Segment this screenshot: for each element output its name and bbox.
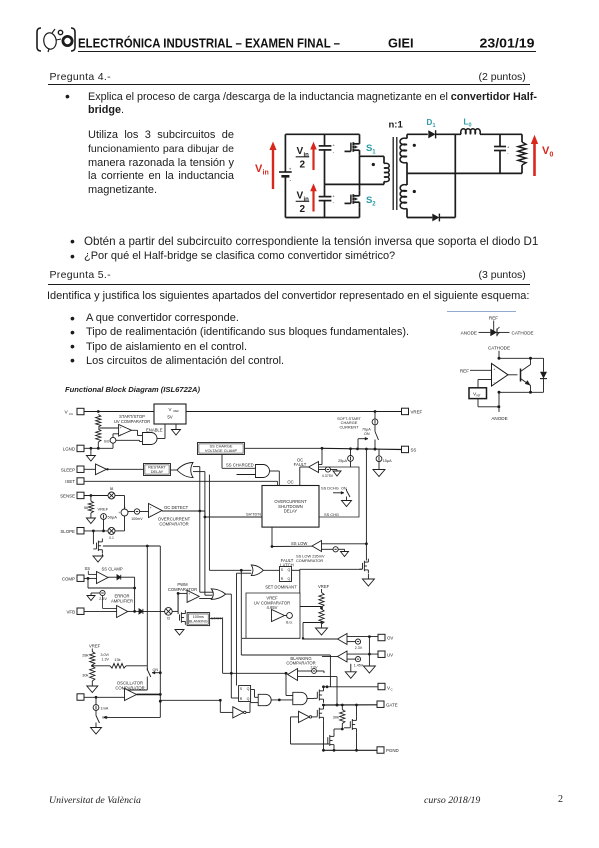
pin GATE <box>377 701 398 707</box>
label SET DOMINANT <box>265 585 297 590</box>
source BG uv <box>285 613 293 625</box>
svg-text:UV COMPARATOR: UV COMPARATOR <box>114 419 150 424</box>
ground vref divider <box>316 628 328 635</box>
ground ovuv <box>363 666 375 673</box>
wire osc comp out <box>137 694 222 701</box>
pin ISET <box>65 478 84 484</box>
wire fault latch inputs <box>209 475 251 686</box>
ground sense divider <box>86 518 95 524</box>
label ERROR AMPLIFIER <box>111 594 133 604</box>
label 3.0V 1.3V <box>101 653 110 661</box>
ground slope mosfet <box>93 554 103 563</box>
svg-text:3.0V/: 3.0V/ <box>101 653 109 657</box>
label Vin/2 bottom <box>296 191 310 216</box>
comparator SS LOW <box>272 541 368 552</box>
svg-text:SS CLAMP: SS CLAMP <box>102 566 123 571</box>
summer sigma <box>115 496 128 531</box>
wire REF input <box>470 369 492 371</box>
capacitor C2 bottom <box>319 184 336 217</box>
svg-text:15µA: 15µA <box>383 459 392 463</box>
svg-text:in: in <box>263 170 269 177</box>
wire blanking comp rail <box>223 672 288 675</box>
source 15uA <box>376 449 392 470</box>
block OVERCURRENT SHUTDOWN DELAY <box>262 486 319 528</box>
svg-text:ref: ref <box>477 394 481 398</box>
svg-text:ON: ON <box>364 432 370 436</box>
wire Vc rail <box>322 685 378 688</box>
svg-text:Q: Q <box>288 568 291 572</box>
op-amp error amp tl431 <box>492 364 509 387</box>
comparator OV <box>338 634 348 645</box>
label SS LOW 235mV COMPARATOR <box>296 554 325 564</box>
svg-text:ENABLE: ENABLE <box>146 427 163 432</box>
svg-text:R: R <box>281 577 284 581</box>
svg-text:COMPARATOR: COMPARATOR <box>159 521 188 526</box>
header title <box>78 35 535 50</box>
svg-text:+: + <box>332 143 335 148</box>
multiplier sense <box>108 487 115 499</box>
svg-text:PGND: PGND <box>386 748 399 753</box>
wire OV pin <box>347 635 378 638</box>
source Vref box <box>469 388 487 399</box>
pin VCC <box>65 408 85 416</box>
wire switch midpoint <box>359 155 361 191</box>
wire OC detect out <box>162 510 262 519</box>
label OVERCURRENT COMPARATOR <box>158 517 191 527</box>
wire COMP node <box>84 577 136 589</box>
svg-text:SS LOW: SS LOW <box>291 541 307 546</box>
box vref uv region <box>242 593 300 638</box>
label L0 <box>464 118 472 129</box>
wire switch control arrow <box>358 437 368 449</box>
arrow V0 red <box>531 135 538 176</box>
ground 235mV <box>341 552 349 557</box>
wire secondary mid rail <box>407 172 522 174</box>
svg-text:SLEEP: SLEEP <box>61 467 75 472</box>
label BLANKING COMPARATOR <box>286 656 318 670</box>
source 2.3V ov <box>347 639 369 650</box>
comparator OC fault <box>309 448 326 472</box>
svg-text:SS: SS <box>411 447 417 452</box>
svg-text:ISET: ISET <box>65 479 75 484</box>
svg-text:+: + <box>124 505 126 509</box>
transistor gate pull-up <box>314 687 324 703</box>
svg-text:+: + <box>188 592 190 596</box>
svg-text:VREF: VREF <box>411 409 423 414</box>
wire bottom rail tl431 <box>498 391 544 394</box>
resistor load <box>518 134 526 173</box>
source 100mV offset <box>128 509 149 521</box>
ground below VREF box <box>172 424 181 435</box>
svg-text:DELAY: DELAY <box>284 509 298 514</box>
resistor 5k <box>84 496 94 519</box>
svg-text:SH'TD'N: SH'TD'N <box>246 512 261 517</box>
logo degree mark <box>58 30 62 34</box>
resistor VCC divider <box>96 415 119 449</box>
gate AND gate drive 2 <box>279 673 307 704</box>
capacitor output <box>494 134 510 173</box>
pin SENSE <box>60 492 84 498</box>
label SS LOW <box>291 541 307 546</box>
wire UV output <box>322 656 338 658</box>
svg-text:+: + <box>150 506 152 510</box>
logo bracket right <box>71 28 75 51</box>
node Vin red arrow <box>269 142 276 190</box>
logo bold o <box>63 36 72 45</box>
svg-text:OV: OV <box>387 636 393 641</box>
multiplier slope 0.1 <box>108 527 115 539</box>
label Vin <box>255 163 269 177</box>
svg-text:in: in <box>304 153 310 159</box>
svg-text:COMPARATOR: COMPARATOR <box>296 558 323 563</box>
svg-text:V: V <box>297 146 304 157</box>
svg-text:SENSE: SENSE <box>60 493 75 498</box>
label SS CLAMP <box>102 566 123 571</box>
svg-text:VREF: VREF <box>318 584 330 589</box>
transistor ss pulldown <box>300 559 369 574</box>
svg-text:+: + <box>289 166 292 171</box>
wire latch to mosfet gate <box>300 592 322 594</box>
pin COMP <box>62 575 84 581</box>
wire and2 to upper mosfet <box>307 698 314 700</box>
wire LGND rail <box>84 447 113 450</box>
diode protection tl431 <box>540 358 547 392</box>
label SS CHARGED <box>226 463 254 468</box>
source 1mA <box>93 697 109 714</box>
svg-text:OC: OC <box>287 480 293 485</box>
transistor Q1 tl431 <box>508 358 531 392</box>
label PWM COMPARATOR <box>168 582 197 592</box>
gate AND enable <box>116 424 165 445</box>
svg-text:-: - <box>333 149 335 154</box>
svg-text:28k: 28k <box>82 653 88 658</box>
bus vertical 160 <box>159 546 162 718</box>
label VREF UV COMPARATOR 4.65V <box>254 596 290 611</box>
block RESTART DELAY <box>144 464 171 476</box>
svg-text:COMPARATOR: COMPARATOR <box>168 587 197 592</box>
transistor S2 <box>345 191 360 218</box>
gate AND ss charged <box>237 465 280 574</box>
wire vref to op-amp minus <box>478 380 492 388</box>
svg-text:5V: 5V <box>167 415 172 420</box>
label SOFT-START CHARGE CURRENT <box>337 416 361 430</box>
svg-text:ON: ON <box>153 668 159 672</box>
pin SLEEP <box>61 466 84 472</box>
pin VREF <box>402 408 423 414</box>
switch soft start <box>374 430 379 450</box>
svg-text:C: C <box>391 688 394 692</box>
label S1 <box>366 143 376 156</box>
comparator overcurrent <box>149 504 163 518</box>
label ANODE <box>461 330 477 335</box>
svg-text:V: V <box>297 191 304 202</box>
svg-text:5k: 5k <box>84 505 88 510</box>
label OC DETECT <box>164 505 189 510</box>
label n:1 <box>389 120 404 131</box>
svg-text:0: 0 <box>550 152 554 159</box>
wire mosfet drain to bus <box>102 539 160 546</box>
wire osd to ss low <box>271 527 274 548</box>
wire SLEEP <box>84 468 96 470</box>
svg-text:FAULT: FAULT <box>294 462 307 467</box>
label V0 <box>542 145 554 159</box>
wire capacitor midpoint <box>325 183 360 185</box>
ground blanking mosfet <box>175 625 185 635</box>
latch pwm SR <box>239 686 251 702</box>
svg-text:50µA: 50µA <box>108 515 118 520</box>
transformer secondary winding bottom <box>400 173 416 217</box>
svg-text:+: + <box>332 193 335 198</box>
wire OR restart input buses <box>193 467 209 596</box>
wire vref divider taps <box>300 607 322 639</box>
pin UV <box>378 651 393 657</box>
arrow Vin/2 bottom red <box>310 183 317 211</box>
switch osc hysteresis <box>125 668 161 692</box>
source 4.375V oc fault <box>322 467 337 478</box>
source 70uA soft start <box>372 412 378 431</box>
svg-text:BLANKING: BLANKING <box>189 620 208 624</box>
svg-text:ON: ON <box>341 487 347 491</box>
logo bracket left <box>37 28 41 51</box>
wire vref to anode <box>478 392 500 412</box>
label VREF 50uA <box>98 507 109 512</box>
label REF fig2 <box>460 368 469 373</box>
pin RTCT <box>77 694 84 700</box>
label D1 <box>427 118 436 129</box>
svg-text:1.3V: 1.3V <box>102 657 110 661</box>
label SS CHG <box>324 512 339 517</box>
transistor gate pull-down <box>317 705 323 721</box>
label CATHODE fig2 <box>488 346 510 351</box>
svg-text:Q: Q <box>288 577 291 581</box>
wire gate rail <box>322 703 377 707</box>
wire secondary bottom rail <box>407 217 432 219</box>
resistor 28k <box>82 649 95 668</box>
svg-text:2: 2 <box>300 160 306 171</box>
label SS DCHG ON <box>321 486 347 491</box>
source 2.5V <box>91 590 107 600</box>
diode SS clamp <box>108 575 136 613</box>
svg-text:1: 1 <box>433 123 436 129</box>
svg-text:-: - <box>333 200 335 205</box>
label OC <box>287 480 293 485</box>
node diode junction rail <box>454 134 456 217</box>
ground oc fault ref <box>333 471 341 476</box>
label FAULT LATCH <box>280 558 294 568</box>
wire buffer input <box>291 717 330 744</box>
ground rtct <box>91 728 102 735</box>
svg-text:ANODE: ANODE <box>491 416 507 421</box>
logo oval glyph <box>43 29 61 52</box>
wire SENSE <box>84 494 108 497</box>
svg-text:COMPARATOR: COMPARATOR <box>115 685 144 690</box>
svg-text:SS: SS <box>85 566 91 571</box>
svg-text:R: R <box>240 697 243 701</box>
resistor 13k <box>92 657 147 668</box>
transformer primary winding <box>360 156 390 184</box>
svg-text:REF: REF <box>174 409 180 413</box>
transformer secondary winding top <box>400 134 416 173</box>
svg-text:+: + <box>120 426 122 430</box>
label SHTDN <box>246 512 261 517</box>
transistor sink lower <box>328 729 343 750</box>
pin OV <box>378 634 393 640</box>
svg-text:t3: t3 <box>167 617 170 621</box>
ground 15uA <box>373 470 385 477</box>
gate OR pwm <box>199 589 226 600</box>
label ENABLE <box>146 427 163 432</box>
svg-text:OC DETECT: OC DETECT <box>164 505 189 510</box>
pin SLOPE <box>60 528 84 534</box>
diode D1 <box>428 130 461 138</box>
latch fault SR <box>263 567 291 582</box>
resistor vref right <box>318 584 330 628</box>
svg-text:START: START <box>211 616 224 621</box>
svg-text:1.45V: 1.45V <box>354 663 364 667</box>
wire UV pin <box>347 637 378 666</box>
comparator VREF UV <box>272 610 285 622</box>
svg-text:+: + <box>118 511 120 515</box>
svg-text:Q: Q <box>247 687 250 691</box>
wire oc fault out <box>300 467 309 486</box>
svg-text:n:1: n:1 <box>389 120 404 131</box>
svg-text:B.G.: B.G. <box>286 621 293 625</box>
ground 2.5V <box>87 596 95 601</box>
transistor sink right <box>342 705 356 750</box>
svg-text:REF: REF <box>489 316 498 321</box>
wire top rail primary <box>285 133 359 135</box>
svg-text:13k: 13k <box>114 657 120 662</box>
inverter osc delay <box>220 700 246 718</box>
wire OV output <box>302 637 338 639</box>
label REF top <box>489 316 498 321</box>
wire REF stem <box>493 321 495 333</box>
label ANODE bottom <box>491 416 507 421</box>
svg-text:CATHODE: CATHODE <box>512 330 534 335</box>
svg-text:25µA: 25µA <box>338 459 347 463</box>
box SS discharge region <box>319 467 359 517</box>
svg-text:COMP: COMP <box>62 576 75 581</box>
svg-text:BG: BG <box>104 439 109 443</box>
svg-text:REF: REF <box>460 368 469 373</box>
diode D2 bottom <box>432 214 455 222</box>
gate OR fault <box>251 565 263 576</box>
buffer low side <box>291 702 318 723</box>
wire cathode to op-amp top <box>498 358 500 368</box>
wire secondary top rail <box>407 133 428 135</box>
label START/STOP UV COMPARATOR <box>114 414 150 424</box>
svg-text:UV: UV <box>387 652 393 657</box>
block SS CHARGE VOLTAGE CLAMP <box>198 443 245 455</box>
comparator start/stop UV <box>119 425 132 437</box>
svg-text:2: 2 <box>300 204 306 215</box>
comparator UV <box>338 651 348 662</box>
svg-text:Q: Q <box>247 697 250 701</box>
label OSCILLATOR COMPARATOR <box>115 681 144 691</box>
svg-text:CC: CC <box>69 412 74 416</box>
ground ss discharge <box>342 467 352 507</box>
svg-text:ELECTRÓNICA INDUSTRIAL – EXAME: ELECTRÓNICA INDUSTRIAL – EXAMEN FINAL – <box>78 35 340 50</box>
wire ISET <box>84 481 278 485</box>
wire start to blanking comp <box>210 619 223 674</box>
capacitor C1 top <box>319 134 336 184</box>
wire SS rail <box>245 447 402 451</box>
source 1.45V uv <box>347 657 364 668</box>
svg-text:AMPLIFIER: AMPLIFIER <box>111 598 133 603</box>
wire top rail tl431 <box>498 357 544 360</box>
wire PGND rail <box>322 721 377 752</box>
source 25uA <box>338 449 353 467</box>
pin VFB <box>66 608 84 614</box>
wire clamp to and <box>222 455 256 469</box>
multiplier 1/3 <box>165 592 188 621</box>
svg-text:SS CHARGED: SS CHARGED <box>226 463 254 468</box>
svg-text:2.3V: 2.3V <box>355 646 363 650</box>
svg-text:CATHODE: CATHODE <box>488 346 510 351</box>
svg-text:VOLTAGE CLAMP: VOLTAGE CLAMP <box>205 448 238 453</box>
block 100ms BLANKING <box>187 613 210 626</box>
comparator blanking <box>288 669 339 707</box>
block VREF 5V regulator <box>154 404 186 424</box>
ground ss pulldown <box>362 574 374 586</box>
wire cathode stem <box>498 351 500 359</box>
transistor 100ns blanking <box>178 593 185 624</box>
svg-text:-: - <box>290 177 292 183</box>
svg-text:VREF: VREF <box>89 644 101 649</box>
source BG bandgap <box>104 434 118 449</box>
wire RTCT <box>84 696 125 699</box>
svg-text:SS DCHG: SS DCHG <box>321 486 339 491</box>
wire fault latch output <box>292 569 300 593</box>
wire rail 655 <box>241 655 330 687</box>
svg-text:1: 1 <box>372 150 376 156</box>
svg-text:SLOPE: SLOPE <box>60 529 75 534</box>
label VREF osc <box>89 644 101 649</box>
svg-text:100mV: 100mV <box>131 517 143 521</box>
arrow Vin/2 top red <box>310 142 317 170</box>
comparator oscillator <box>122 689 137 701</box>
svg-text:0.1: 0.1 <box>109 536 114 540</box>
gate OR restart <box>171 463 194 478</box>
ground mid right <box>345 664 356 679</box>
label START <box>211 616 224 621</box>
svg-text:0: 0 <box>469 123 472 129</box>
svg-text:DELAY: DELAY <box>151 469 164 474</box>
svg-text:30k: 30k <box>333 715 339 720</box>
source Vin battery <box>279 134 292 217</box>
label OC FAULT <box>294 457 307 467</box>
svg-text:ANODE: ANODE <box>461 330 477 335</box>
svg-text:+: + <box>507 144 510 149</box>
svg-text:VREF: VREF <box>98 507 109 512</box>
svg-text:LGND: LGND <box>63 446 75 451</box>
diode error amp out <box>128 609 165 614</box>
svg-text:SS CHG: SS CHG <box>324 512 339 517</box>
resistor 30k <box>82 666 95 686</box>
ground osc divider <box>87 686 98 693</box>
switch rtct discharge <box>96 714 160 728</box>
wire drain rail y546 <box>102 542 160 548</box>
transformer core <box>393 137 397 210</box>
svg-text:2.5V: 2.5V <box>99 597 107 601</box>
wire bottom rail primary <box>285 217 359 219</box>
buffer sleep <box>96 464 144 475</box>
wire VFB <box>84 610 117 612</box>
svg-text:SET DOMINANT: SET DOMINANT <box>265 585 297 590</box>
svg-text:V: V <box>169 407 172 412</box>
svg-text:2: 2 <box>372 202 376 208</box>
label SS clamp node <box>85 566 91 571</box>
